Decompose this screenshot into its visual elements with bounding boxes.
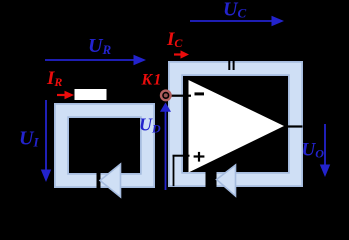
svg-text:K1: K1 [141,72,163,89]
